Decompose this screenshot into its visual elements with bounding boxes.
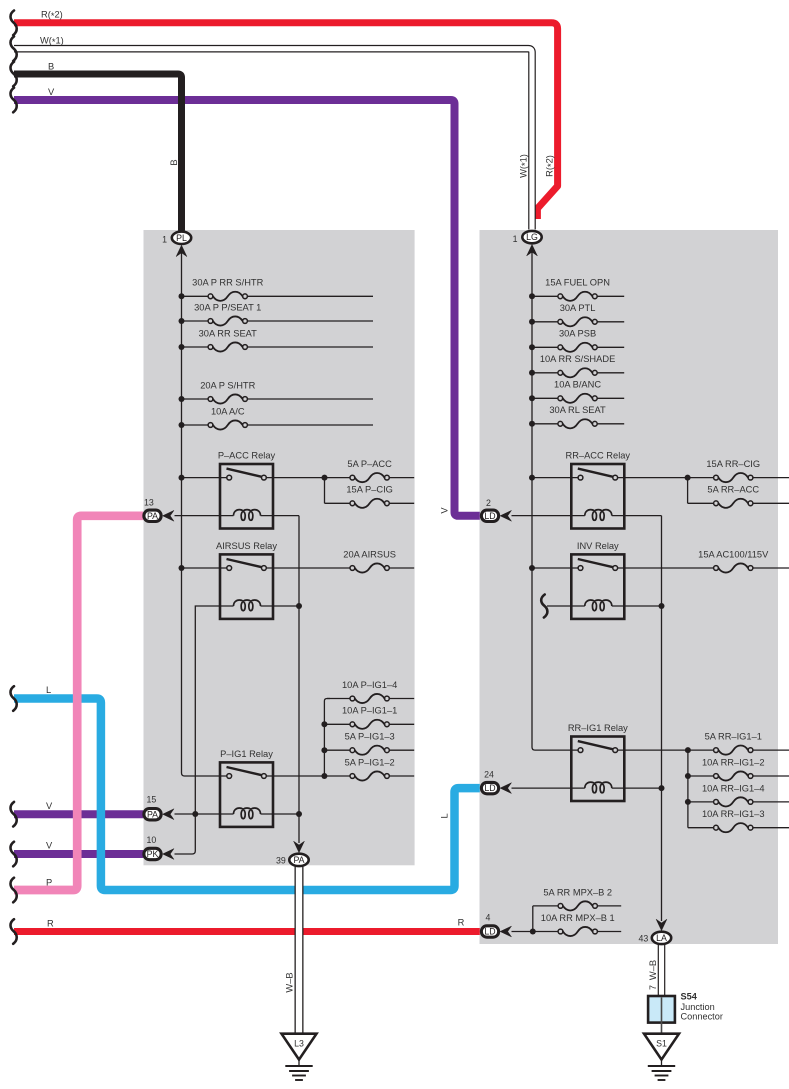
svg-text:LD: LD	[484, 511, 495, 521]
svg-text:10A RR S/SHADE: 10A RR S/SHADE	[540, 354, 615, 364]
svg-text:15A RR–CIG: 15A RR–CIG	[706, 459, 760, 469]
svg-text:30A RR SEAT: 30A RR SEAT	[199, 328, 258, 338]
svg-text:W–B: W–B	[648, 960, 658, 980]
svg-text:Connector: Connector	[681, 1012, 723, 1022]
svg-text:V: V	[48, 87, 55, 97]
svg-text:30A P P/SEAT 1: 30A P P/SEAT 1	[194, 302, 261, 312]
svg-text:L: L	[46, 685, 51, 695]
svg-text:15A FUEL OPN: 15A FUEL OPN	[545, 278, 610, 288]
svg-text:5A RR–ACC: 5A RR–ACC	[707, 485, 759, 495]
svg-text:1: 1	[162, 235, 167, 245]
svg-text:P: P	[46, 878, 52, 888]
svg-text:10A RR–IG1–2: 10A RR–IG1–2	[702, 757, 765, 767]
svg-text:P–IG1 Relay: P–IG1 Relay	[220, 749, 273, 759]
svg-text:V: V	[46, 801, 53, 811]
svg-text:5A RR MPX–B 2: 5A RR MPX–B 2	[543, 887, 612, 897]
svg-text:V: V	[440, 507, 450, 514]
svg-text:L3: L3	[294, 1039, 304, 1049]
svg-text:10A P–IG1–4: 10A P–IG1–4	[342, 680, 397, 690]
svg-text:B: B	[48, 61, 54, 71]
svg-text:PA: PA	[147, 511, 158, 521]
svg-text:24: 24	[484, 769, 494, 779]
svg-text:10A A/C: 10A A/C	[211, 406, 245, 416]
svg-text:V: V	[46, 841, 53, 851]
svg-text:10A RR–IG1–3: 10A RR–IG1–3	[702, 809, 765, 819]
svg-text:30A RL SEAT: 30A RL SEAT	[549, 405, 606, 415]
svg-text:43: 43	[639, 934, 649, 944]
svg-text:RR–IG1 Relay: RR–IG1 Relay	[568, 723, 628, 733]
svg-text:LG: LG	[526, 232, 538, 242]
svg-text:30A PSB: 30A PSB	[559, 329, 596, 339]
svg-text:30A P RR S/HTR: 30A P RR S/HTR	[192, 278, 263, 288]
svg-text:AIRSUS Relay: AIRSUS Relay	[216, 541, 277, 551]
svg-text:PK: PK	[147, 849, 159, 859]
svg-text:Junction: Junction	[681, 1002, 715, 1012]
svg-text:20A AIRSUS: 20A AIRSUS	[343, 549, 396, 559]
svg-text:13: 13	[144, 498, 154, 508]
svg-text:10: 10	[147, 835, 157, 845]
svg-text:1: 1	[513, 234, 518, 244]
svg-text:LD: LD	[484, 927, 495, 937]
svg-text:10A P–IG1–1: 10A P–IG1–1	[342, 706, 397, 716]
svg-text:S1: S1	[656, 1039, 667, 1049]
svg-text:PA: PA	[293, 855, 304, 865]
svg-text:15A AC100/115V: 15A AC100/115V	[698, 549, 769, 559]
svg-text:15A P–CIG: 15A P–CIG	[346, 485, 393, 495]
svg-text:R(*2): R(*2)	[41, 10, 63, 22]
svg-text:PL: PL	[176, 233, 187, 243]
svg-text:B: B	[169, 159, 179, 165]
svg-text:R: R	[458, 918, 465, 928]
svg-text:R(*2): R(*2)	[545, 155, 557, 177]
svg-text:20A P S/HTR: 20A P S/HTR	[200, 380, 255, 390]
svg-text:R: R	[47, 918, 54, 928]
svg-text:RR–ACC Relay: RR–ACC Relay	[566, 451, 631, 461]
svg-text:S54: S54	[681, 992, 698, 1002]
svg-text:LA: LA	[656, 933, 667, 943]
svg-text:P–ACC Relay: P–ACC Relay	[218, 451, 276, 461]
svg-text:5A P–IG1–2: 5A P–IG1–2	[345, 757, 395, 767]
svg-text:W–B: W–B	[284, 972, 294, 992]
svg-text:W(*1): W(*1)	[519, 154, 531, 178]
svg-text:10A RR MPX–B 1: 10A RR MPX–B 1	[541, 913, 615, 923]
svg-text:5A P–IG1–3: 5A P–IG1–3	[345, 732, 395, 742]
svg-text:39: 39	[276, 856, 286, 866]
svg-text:10A RR–IG1–4: 10A RR–IG1–4	[702, 783, 765, 793]
svg-text:INV Relay: INV Relay	[577, 541, 619, 551]
svg-text:15: 15	[147, 794, 157, 804]
svg-text:W(*1): W(*1)	[40, 36, 64, 48]
svg-text:5A P–ACC: 5A P–ACC	[347, 459, 392, 469]
svg-text:L: L	[440, 813, 450, 818]
svg-text:5A RR–IG1–1: 5A RR–IG1–1	[705, 732, 762, 742]
svg-text:PA: PA	[147, 809, 158, 819]
svg-text:30A PTL: 30A PTL	[560, 303, 596, 313]
svg-text:2: 2	[486, 498, 491, 508]
svg-text:LD: LD	[484, 783, 495, 793]
svg-text:10A B/ANC: 10A B/ANC	[554, 380, 601, 390]
svg-text:4: 4	[486, 913, 491, 923]
svg-text:7: 7	[648, 985, 658, 990]
